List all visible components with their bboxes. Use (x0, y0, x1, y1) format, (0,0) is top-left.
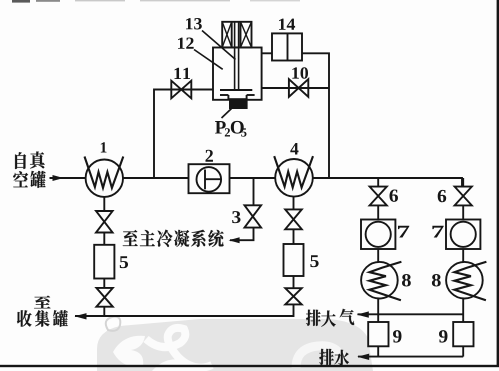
stem valve-box5 (293, 229, 295, 244)
stem box5-valve (103, 279, 105, 288)
stem 9-drain (A) (377, 346, 379, 356)
page bottom border (0, 365, 499, 367)
label 5 (left) (120, 256, 128, 268)
elbow to arrow (230, 228, 254, 241)
label 8 (left branch) (402, 274, 411, 286)
watermark (97, 317, 373, 371)
stem 1-valve (103, 197, 105, 211)
stem valve-box5 (103, 233, 105, 245)
wire box12-box14 (262, 52, 272, 54)
label 13 (186, 18, 202, 29)
inlet pipe from vacuum tank (50, 177, 86, 179)
stirrer shaft (235, 22, 239, 90)
label 7 (right branch) (432, 226, 443, 238)
cold trap box 14 (272, 33, 302, 60)
pump 8 (A) (361, 262, 398, 299)
collect line (75, 315, 294, 317)
label: to collection tank (17, 296, 68, 327)
valve below 1 (96, 211, 113, 233)
stem 7-8 (A) (377, 249, 379, 262)
main line seg 2-4 (230, 177, 276, 179)
label 3 (232, 211, 240, 223)
stem 7-8 (B) (462, 249, 464, 262)
label: drain (319, 349, 349, 366)
label 2 (205, 150, 212, 162)
branch A stem top (377, 178, 379, 187)
stirrer gland 13 structure (222, 22, 251, 48)
condenser 1 (86, 160, 123, 197)
stem box5-valve (293, 276, 295, 288)
stem to collect line (292, 304, 295, 316)
stem 4-valve (293, 197, 295, 210)
main line seg 4-right (313, 178, 462, 187)
page right border (497, 0, 499, 367)
rotameter 7 (B) (446, 220, 480, 250)
label: from vacuum tank (13, 151, 45, 187)
main line seg 1-2 (123, 177, 189, 179)
label 14 (279, 19, 295, 30)
label 12 (178, 38, 194, 49)
rotameter 7 (A) (361, 220, 395, 250)
leader 13 (202, 31, 236, 60)
label 8 (right branch) (432, 274, 441, 286)
stem 8-9 (A) (377, 299, 379, 323)
condenser 4 (275, 159, 313, 197)
label 5 (middle) (310, 255, 318, 267)
stem valve6-7 (A) (377, 205, 379, 219)
gas box 9 (A) (368, 322, 388, 346)
stem valve6-7 (B) (462, 205, 464, 219)
label 1 (101, 142, 107, 152)
stem 9-drain (B) (462, 346, 464, 356)
stem 8-9 (B) (462, 299, 464, 323)
label 10 (292, 67, 308, 78)
filter box 5 (middle) (284, 244, 304, 276)
label 6 (left branch) (390, 189, 398, 201)
branch to main condenser (253, 178, 255, 205)
valve 11 (171, 81, 191, 99)
lower valve (middle branch) (285, 288, 301, 304)
P2O5 charge (filled) (229, 98, 248, 109)
stem to collect line (103, 307, 105, 316)
label 9 (left branch) (393, 330, 401, 342)
label 6 (right branch) (438, 190, 446, 202)
label: exhaust to atmosphere (306, 309, 354, 327)
valve 10 (289, 79, 308, 97)
valve below 4 (285, 209, 302, 229)
pump 8 (B) (446, 262, 483, 299)
label P2O5 (215, 121, 246, 137)
inlet arrow (53, 175, 64, 181)
wire box14-right drop (302, 53, 329, 178)
drain line (358, 356, 463, 358)
top scan smudges (12, 0, 300, 3)
label 11 (174, 68, 190, 79)
pump 2 (189, 164, 230, 193)
left bypass pipe (154, 90, 213, 179)
gas box 9 (B) (453, 322, 473, 346)
P2O5 leader (222, 109, 232, 119)
label 4 (290, 143, 298, 155)
valve 3 (245, 205, 262, 227)
right bypass pipe (262, 87, 329, 89)
exhaust line (358, 313, 464, 315)
label: to main condensing system (123, 230, 224, 247)
filter box 5 (left) (94, 245, 114, 279)
label 7 (left branch) (398, 226, 409, 238)
valve 6 (B) (455, 187, 472, 206)
label 9 (right branch) (439, 330, 447, 342)
drying chamber box 12 (213, 48, 262, 100)
branch B stem top (462, 178, 464, 187)
valve 6 (A) (370, 187, 387, 206)
tray inside box 12 (220, 90, 255, 100)
lower valve (left branch) (96, 288, 112, 307)
leader 12 (194, 50, 223, 70)
